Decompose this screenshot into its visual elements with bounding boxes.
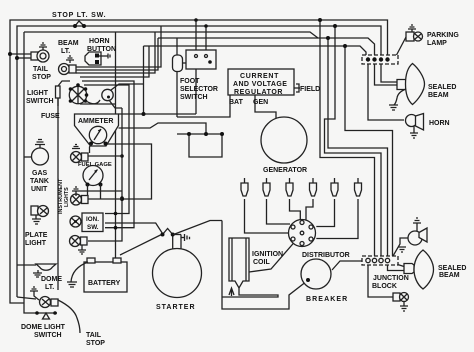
svg-text:BAT: BAT [229,99,244,106]
svg-text:SELECTOR: SELECTOR [180,86,218,93]
svg-text:COIL: COIL [253,259,270,266]
svg-text:LT.: LT. [45,284,54,291]
svg-text:AND VOLTAGE: AND VOLTAGE [233,81,287,88]
svg-text:LT.: LT. [61,48,70,55]
svg-text:BATTERY: BATTERY [88,280,121,287]
svg-text:SWITCH: SWITCH [34,332,62,339]
svg-text:LIGHT: LIGHT [25,240,47,247]
svg-text:LIGHT: LIGHT [27,90,49,97]
svg-text:SEALED: SEALED [428,84,456,91]
svg-text:ION.: ION. [86,216,99,223]
svg-text:HORN: HORN [429,120,450,127]
svg-text:FUSE: FUSE [41,113,60,120]
svg-text:BREAKER: BREAKER [306,296,348,303]
svg-text:JUNCTION: JUNCTION [373,275,409,282]
svg-text:CURRENT: CURRENT [240,73,279,80]
svg-text:IGNITION: IGNITION [252,251,283,258]
svg-text:FIELD: FIELD [300,86,320,93]
svg-text:BEAM: BEAM [58,40,79,47]
svg-text:BUTTON: BUTTON [87,46,116,53]
svg-text:STOP: STOP [86,340,105,347]
svg-text:PLATE: PLATE [25,232,48,239]
svg-text:BLOCK: BLOCK [372,283,397,290]
svg-text:DISTRIBUTOR: DISTRIBUTOR [302,252,350,259]
svg-text:TAIL: TAIL [86,332,102,339]
svg-text:BEAM: BEAM [439,272,460,279]
svg-text:FUEL GAGE: FUEL GAGE [78,162,112,168]
svg-text:FOOT: FOOT [180,78,200,85]
svg-text:STOP LT. SW.: STOP LT. SW. [52,12,106,19]
svg-text:DOME: DOME [41,276,62,283]
svg-text:STARTER: STARTER [156,304,196,311]
svg-text:BEAM: BEAM [428,92,449,99]
svg-text:STOP: STOP [32,74,51,81]
svg-text:SWITCH: SWITCH [26,98,54,105]
svg-text:LAMP: LAMP [427,40,447,47]
svg-text:REGULATOR: REGULATOR [234,89,283,96]
svg-text:SEALED: SEALED [438,265,466,272]
svg-text:DOME LIGHT: DOME LIGHT [21,324,66,331]
svg-text:HORN: HORN [89,38,110,45]
svg-text:PARKING: PARKING [427,32,459,39]
svg-text:UNIT: UNIT [31,186,48,193]
svg-text:TANK: TANK [30,178,49,185]
svg-text:SW.: SW. [87,224,99,231]
svg-text:GAS: GAS [32,170,48,177]
svg-text:GENERATOR: GENERATOR [263,167,307,174]
svg-text:TAIL: TAIL [33,66,49,73]
svg-text:LIGHTS: LIGHTS [64,187,70,207]
svg-text:AMMETER: AMMETER [78,118,113,125]
svg-text:GEN: GEN [253,99,268,106]
svg-text:SWITCH: SWITCH [180,94,208,101]
